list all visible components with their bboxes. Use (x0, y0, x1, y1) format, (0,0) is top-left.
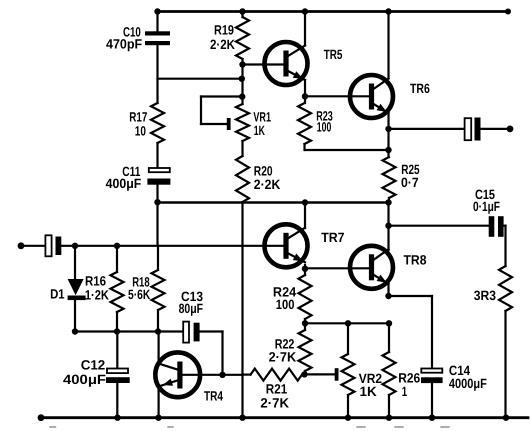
svg-text:R17: R17 (129, 110, 147, 125)
svg-text:0·7: 0·7 (401, 175, 419, 190)
svg-text:TR5: TR5 (324, 47, 343, 62)
svg-text:470pF: 470pF (106, 37, 142, 52)
svg-text:10: 10 (135, 123, 146, 138)
svg-text:1K: 1K (360, 384, 377, 399)
svg-text:2·7K: 2·7K (269, 350, 297, 365)
svg-text:1: 1 (402, 384, 408, 399)
svg-text:TR6: TR6 (410, 81, 430, 96)
svg-text:1K: 1K (254, 123, 265, 138)
svg-text:400μF: 400μF (106, 176, 142, 191)
svg-text:1·2K: 1·2K (85, 287, 109, 302)
svg-text:R16: R16 (85, 273, 106, 288)
svg-text:400μF: 400μF (63, 372, 106, 387)
svg-text:2·7K: 2·7K (260, 395, 289, 410)
svg-text:2·2K: 2·2K (254, 177, 281, 192)
svg-text:TR8: TR8 (404, 252, 427, 267)
svg-text:80μF: 80μF (179, 301, 204, 316)
svg-text:0·1μF: 0·1μF (473, 199, 500, 214)
svg-text:D1: D1 (50, 287, 65, 302)
svg-text:100: 100 (276, 297, 295, 312)
svg-text:5·6K: 5·6K (128, 287, 150, 302)
svg-text:R19: R19 (214, 23, 234, 38)
svg-text:TR4: TR4 (204, 388, 223, 403)
svg-text:4000μF: 4000μF (449, 376, 487, 391)
svg-text:2·2K: 2·2K (210, 37, 235, 52)
svg-text:C12: C12 (81, 358, 106, 373)
svg-text:100: 100 (317, 120, 332, 135)
svg-text:3R3: 3R3 (474, 288, 497, 303)
svg-text:TR7: TR7 (321, 230, 344, 245)
